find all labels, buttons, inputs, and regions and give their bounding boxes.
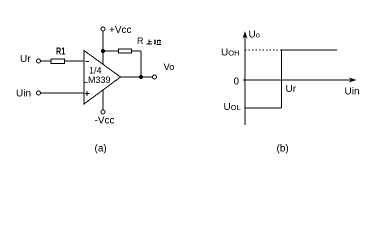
svg-text:Ur: Ur: [20, 54, 31, 65]
svg-text:(a): (a): [95, 144, 107, 155]
wire op-amp bottom edge to -Vcc: [102, 90, 104, 110]
svg-text:-Vcc: -Vcc: [95, 116, 115, 127]
svg-text:Uo: Uo: [249, 30, 260, 41]
transfer curve high segment at UOH: [282, 49, 338, 51]
svg-text:UOL: UOL: [224, 102, 241, 113]
x-axis arrowhead: [349, 77, 357, 82]
svg-text:Ur: Ur: [286, 84, 297, 95]
svg-text:Vo: Vo: [164, 62, 175, 73]
svg-text:R: R: [137, 36, 144, 46]
wire Ur terminal to R1: [41, 60, 52, 62]
junction node at output: [139, 75, 143, 79]
wire R1 to inverting input: [65, 60, 85, 62]
terminal +Vcc: [101, 27, 105, 31]
wire pull-up resistor right horizontal: [132, 50, 142, 52]
op-amp U1 triangle (1/4 LM339): [84, 51, 121, 105]
wire pull-up resistor down to output node: [140, 51, 142, 77]
terminal Ur: [37, 59, 41, 63]
svg-text:+Vcc: +Vcc: [109, 25, 132, 36]
junction node at +Vcc branch: [101, 49, 105, 53]
svg-text:0: 0: [234, 77, 240, 88]
svg-text:LM339: LM339: [83, 75, 111, 85]
wire junction to pull-up resistor: [103, 50, 119, 52]
x-axis Uin: [243, 79, 353, 81]
svg-text:UOH: UOH: [221, 48, 239, 59]
wire +Vcc down into op-amp top edge: [102, 31, 104, 64]
label 上拉 subscript (hand drawn strokes): [147, 39, 162, 44]
y-axis arrowhead: [242, 31, 247, 39]
y-axis Uo: [244, 33, 246, 125]
dotted line at UOH level: [245, 49, 282, 51]
svg-text:1/4: 1/4: [89, 66, 102, 76]
transfer curve low segment at UOL: [245, 107, 282, 109]
terminal -Vcc: [101, 110, 105, 114]
svg-text:R1: R1: [56, 46, 65, 58]
terminal Vo: [153, 75, 157, 79]
wire op-amp output to Vo terminal: [120, 76, 153, 78]
svg-text:(b): (b): [277, 144, 289, 155]
svg-text:Uin: Uin: [16, 89, 31, 100]
terminal Uin: [37, 91, 41, 95]
op-amp inverting input minus sign: [86, 61, 90, 63]
svg-text:Uin: Uin: [345, 87, 360, 98]
transfer curve vertical step at Ur: [281, 50, 283, 108]
resistor R1: [51, 59, 65, 64]
resistor R pull-up: [119, 49, 132, 53]
op-amp non-inverting input plus sign: [85, 91, 90, 96]
wire Uin terminal to non-inverting input: [41, 92, 85, 94]
